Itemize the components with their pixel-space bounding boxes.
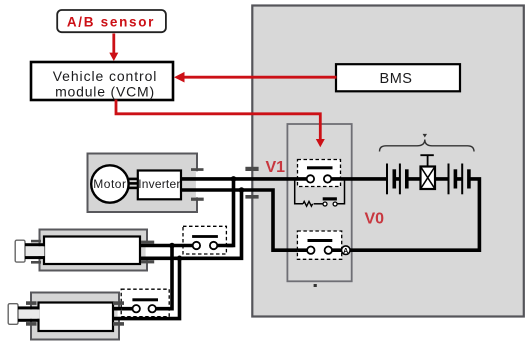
A/B sensor box bbox=[57, 10, 166, 32]
stub aux1 right bottom bbox=[141, 260, 154, 263]
wire branch B return from aux boxes bbox=[139, 190, 242, 258]
svg-text:Inverter: Inverter bbox=[138, 177, 180, 191]
contactor K1 contacts bbox=[307, 175, 314, 182]
stub aux1 right top bbox=[141, 241, 154, 244]
contactor K3 dashed enclosure bbox=[183, 226, 226, 254]
battery cell 4 plates bbox=[461, 164, 463, 195]
battery inter-cell wire segments bbox=[394, 177, 462, 181]
aux1 connector bar top bbox=[25, 243, 45, 246]
contactor K3 actuator bar bbox=[192, 235, 218, 238]
battery cell 3 plates bbox=[448, 164, 450, 195]
red arrow sensor to VCM bbox=[112, 34, 115, 54]
inverter box bbox=[138, 171, 181, 200]
precharge contactor K2 contacts bbox=[323, 202, 327, 206]
aux2 left connector plug bbox=[18, 309, 40, 318]
aux2 connector bar top bbox=[18, 306, 40, 309]
junction node aux return wire bbox=[177, 255, 183, 261]
aux box 1 inner unit bbox=[44, 237, 140, 265]
main positive contactor K1 dashed enclosure bbox=[298, 160, 341, 187]
stub aux2 left bottom bbox=[26, 322, 37, 326]
aux box 2 inner unit bbox=[39, 303, 114, 332]
BMS box bbox=[336, 64, 460, 91]
contactor K5 contacts bbox=[307, 247, 314, 254]
main negative contactor K5 dashed enclosure bbox=[297, 231, 341, 259]
feedthrough stub pack bottom bbox=[245, 195, 258, 199]
brace grouping battery cells bbox=[380, 140, 475, 152]
feedthrough stub motor top bbox=[191, 168, 204, 171]
feedthrough stub pack top bbox=[245, 167, 258, 171]
wire B negative from inverter down to lower contactor bbox=[180, 190, 311, 250]
precharge contactor K2 actuator bar bbox=[323, 197, 337, 200]
current sensor (ammeter) A1 bbox=[342, 246, 351, 255]
contactor K5 actuator bar bbox=[308, 239, 333, 242]
contactor K4 actuator bar bbox=[132, 298, 158, 301]
contactor K1 actuator bar bbox=[307, 166, 333, 169]
aux2 connector bar bottom bbox=[18, 319, 40, 322]
svg-text:BMS: BMS bbox=[380, 71, 413, 87]
svg-text:A: A bbox=[343, 248, 348, 255]
precharge branch wire right leg bbox=[335, 179, 344, 204]
svg-text:V1: V1 bbox=[266, 159, 286, 176]
stub aux2 left top bbox=[26, 301, 37, 305]
contactor K3 contacts bbox=[193, 242, 200, 249]
junction node aux contactor 1 wire bbox=[169, 243, 175, 249]
red line VCM to junction box bbox=[116, 100, 320, 140]
junction node on wire A bbox=[231, 176, 237, 182]
motor circle bbox=[91, 165, 128, 202]
svg-text:A/B sensor: A/B sensor bbox=[67, 14, 155, 29]
VCM box bbox=[31, 62, 173, 100]
fuse F1 (box with X) bbox=[421, 167, 436, 190]
battery cell 2 plates bbox=[399, 164, 401, 195]
wire through contactor K4 bbox=[121, 307, 169, 311]
aux1 left connector plug bbox=[25, 246, 45, 256]
svg-text:V0: V0 bbox=[365, 211, 385, 228]
wire bottom return with battery right drop bbox=[328, 179, 479, 250]
stub aux2 right bottom bbox=[113, 322, 124, 326]
motor-inverter shaft bars bbox=[129, 178, 139, 181]
stub aux2 right top bbox=[113, 301, 124, 305]
battery cell 1 plates bbox=[386, 164, 388, 195]
stub aux1 left bottom bbox=[31, 261, 41, 264]
junction box (contactor box) bbox=[287, 124, 351, 281]
contactor K4 contacts bbox=[133, 305, 140, 312]
aux box 2 enclosure (charger) bbox=[31, 293, 119, 340]
feedthrough stub motor bottom bbox=[191, 198, 204, 201]
fuse F1 service-plug pin bbox=[420, 155, 433, 166]
wire through contactor K3 bbox=[183, 244, 234, 248]
motor/inverter enclosure bbox=[88, 154, 198, 213]
precharge resistor R1 zigzag bbox=[303, 201, 313, 206]
red line BMS to VCM bbox=[184, 76, 337, 79]
aux box 1 enclosure (DC/DC converter) bbox=[40, 230, 148, 271]
svg-text:module (VCM): module (VCM) bbox=[55, 84, 155, 100]
wire through contactor K5 bbox=[297, 248, 341, 252]
svg-text:Motor: Motor bbox=[93, 177, 126, 191]
aux1 connector bar bottom bbox=[25, 256, 45, 259]
brace tick arrow bbox=[423, 134, 427, 138]
precharge branch wire middle bbox=[314, 203, 325, 205]
wire through contactor K1 bbox=[298, 177, 341, 181]
battery pack enclosure bbox=[252, 6, 524, 317]
junction node on wire B bbox=[239, 187, 245, 193]
tiny mark below junction box bbox=[314, 284, 317, 287]
wire A positive from inverter to main contactor bbox=[180, 177, 310, 181]
contactor K4 dashed enclosure bbox=[121, 289, 169, 317]
wire branch A down to aux contactor 1 bbox=[214, 179, 234, 246]
svg-text:Vehicle control: Vehicle control bbox=[53, 68, 158, 84]
stub aux1 left top bbox=[31, 240, 41, 243]
wire riser to aux contactor 2 bbox=[152, 246, 172, 309]
wire aux2 lower return bbox=[112, 258, 180, 318]
precharge branch wire left leg bbox=[295, 179, 303, 204]
